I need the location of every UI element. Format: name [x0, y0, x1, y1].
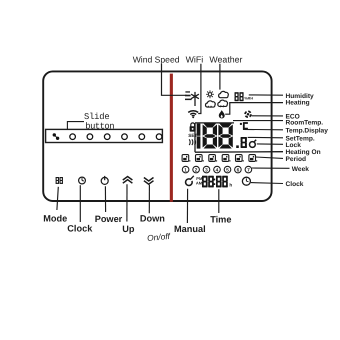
svg-text:5: 5	[226, 167, 229, 173]
svg-text:h: h	[229, 182, 232, 187]
svg-text:7: 7	[247, 167, 250, 173]
svg-text:Down: Down	[140, 214, 165, 224]
svg-text:3: 3	[205, 167, 208, 173]
svg-text:SET: SET	[188, 133, 197, 138]
svg-text:1: 1	[184, 167, 187, 173]
svg-text:Lock: Lock	[286, 142, 302, 149]
svg-text:Up: Up	[122, 224, 135, 234]
svg-text:RoomTemp.: RoomTemp.	[286, 119, 324, 126]
svg-text:AM: AM	[196, 181, 203, 186]
svg-text:Wind Speed: Wind Speed	[133, 54, 180, 64]
svg-text:Manual: Manual	[174, 224, 206, 234]
svg-text:Period: Period	[286, 156, 307, 163]
svg-text:Slide: Slide	[84, 112, 109, 122]
svg-text:Temp.Display: Temp.Display	[286, 128, 329, 135]
svg-text:Week: Week	[292, 166, 309, 173]
svg-text:Power: Power	[95, 214, 123, 224]
svg-text:2: 2	[195, 167, 198, 173]
svg-text:Heating: Heating	[286, 100, 310, 107]
svg-text:Time: Time	[210, 214, 231, 224]
svg-text:WiFi: WiFi	[186, 54, 204, 64]
svg-text:Mode: Mode	[43, 214, 67, 224]
svg-text:Weather: Weather	[209, 54, 242, 64]
svg-text:%RH: %RH	[244, 97, 253, 101]
svg-text:button: button	[85, 122, 114, 132]
svg-text:Heating On: Heating On	[286, 149, 321, 156]
svg-text:Clock: Clock	[67, 223, 93, 233]
svg-text:4: 4	[216, 167, 219, 173]
svg-text:6: 6	[237, 167, 240, 173]
svg-text:On/off: On/off	[147, 231, 172, 243]
svg-text:Clock: Clock	[286, 181, 304, 188]
